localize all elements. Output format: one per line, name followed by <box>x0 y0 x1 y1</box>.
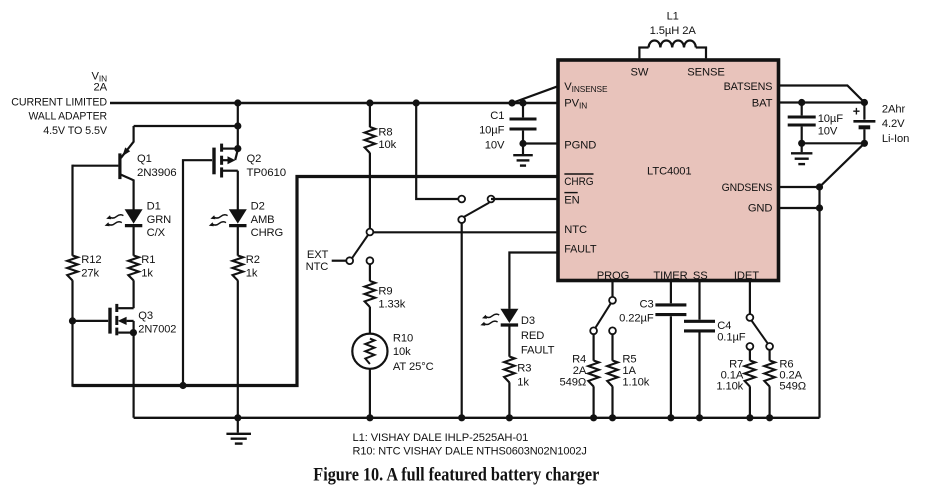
svg-text:GND: GND <box>748 203 773 215</box>
svg-text:FAULT: FAULT <box>564 243 596 255</box>
svg-text:1k: 1k <box>141 267 153 279</box>
svg-text:Figure 10. A full featured bat: Figure 10. A full featured battery charg… <box>313 465 599 486</box>
svg-text:D1: D1 <box>147 201 161 213</box>
svg-text:1.10k: 1.10k <box>622 376 649 388</box>
svg-text:1A: 1A <box>622 365 636 377</box>
svg-text:R5: R5 <box>622 353 636 365</box>
svg-text:2A: 2A <box>573 365 587 377</box>
svg-text:LTC4001: LTC4001 <box>647 165 692 177</box>
svg-text:PROG: PROG <box>597 270 630 282</box>
svg-text:NTC: NTC <box>564 224 587 236</box>
svg-text:BATSENS: BATSENS <box>724 81 773 93</box>
svg-text:R4: R4 <box>572 353 586 365</box>
svg-text:2Ahr: 2Ahr <box>882 103 906 115</box>
svg-text:10V: 10V <box>485 140 505 152</box>
svg-text:10µF: 10µF <box>479 124 505 136</box>
svg-text:2A: 2A <box>94 81 108 93</box>
svg-text:SS: SS <box>693 270 708 282</box>
svg-text:GNDSENS: GNDSENS <box>722 182 773 194</box>
svg-text:EXT: EXT <box>307 249 329 261</box>
svg-text:4.2V: 4.2V <box>882 118 905 130</box>
svg-text:TP0610: TP0610 <box>247 167 287 179</box>
svg-text:4.5V TO 5.5V: 4.5V TO 5.5V <box>43 125 107 137</box>
svg-text:R2: R2 <box>246 254 260 266</box>
svg-text:EN: EN <box>564 195 579 207</box>
svg-text:1k: 1k <box>246 267 258 279</box>
svg-text:AMB: AMB <box>251 214 275 226</box>
svg-text:1k: 1k <box>517 376 529 388</box>
svg-text:10k: 10k <box>393 346 411 358</box>
svg-text:WALL ADAPTER: WALL ADAPTER <box>29 111 108 123</box>
svg-text:R10: R10 <box>393 333 413 345</box>
svg-text:TIMER: TIMER <box>653 270 687 282</box>
svg-text:10k: 10k <box>378 139 396 151</box>
svg-text:10V: 10V <box>818 126 838 138</box>
svg-text:IDET: IDET <box>734 270 759 282</box>
svg-text:R8: R8 <box>378 127 392 139</box>
svg-text:C4: C4 <box>717 320 731 332</box>
svg-text:2N3906: 2N3906 <box>137 167 177 179</box>
svg-text:10µF: 10µF <box>818 113 844 125</box>
svg-text:R12: R12 <box>81 254 101 266</box>
svg-text:L1: VISHAY DALE IHLP-2525AH-01: L1: VISHAY DALE IHLP-2525AH-01 <box>353 432 529 444</box>
svg-text:+: + <box>853 105 860 119</box>
svg-text:2N7002: 2N7002 <box>138 323 176 335</box>
svg-text:R1: R1 <box>141 254 155 266</box>
svg-text:CHRG: CHRG <box>251 227 284 239</box>
svg-text:549Ω: 549Ω <box>560 376 587 388</box>
svg-text:Li-Ion: Li-Ion <box>882 133 909 145</box>
svg-text:C1: C1 <box>490 110 504 122</box>
svg-text:Q1: Q1 <box>137 153 152 165</box>
svg-text:C3: C3 <box>639 299 653 311</box>
svg-text:CHRG: CHRG <box>564 176 593 188</box>
svg-text:0.1µF: 0.1µF <box>717 332 746 344</box>
svg-text:C/X: C/X <box>147 227 166 239</box>
svg-text:FAULT: FAULT <box>521 344 555 356</box>
svg-text:27k: 27k <box>81 267 99 279</box>
svg-text:RED: RED <box>521 330 544 342</box>
svg-text:L1: L1 <box>667 11 679 23</box>
svg-text:D3: D3 <box>521 315 535 327</box>
svg-text:BAT: BAT <box>752 97 773 109</box>
svg-text:1.5µH 2A: 1.5µH 2A <box>650 25 697 37</box>
svg-text:Q3: Q3 <box>138 310 153 322</box>
svg-text:PGND: PGND <box>564 140 596 152</box>
svg-text:GRN: GRN <box>147 214 172 226</box>
svg-text:1.10k: 1.10k <box>716 380 743 392</box>
svg-text:R9: R9 <box>378 286 392 298</box>
svg-text:SENSE: SENSE <box>687 66 724 78</box>
svg-text:0.22µF: 0.22µF <box>619 313 654 325</box>
svg-text:SW: SW <box>630 66 648 78</box>
svg-text:Q2: Q2 <box>247 153 262 165</box>
svg-text:549Ω: 549Ω <box>779 380 806 392</box>
svg-text:1.33k: 1.33k <box>378 299 405 311</box>
svg-text:R3: R3 <box>517 363 531 375</box>
svg-text:AT 25°C: AT 25°C <box>393 361 434 373</box>
svg-text:D2: D2 <box>251 201 265 213</box>
svg-text:R10: NTC VISHAY DALE NTHS0603N: R10: NTC VISHAY DALE NTHS0603N02N1002J <box>353 445 587 457</box>
svg-text:CURRENT LIMITED: CURRENT LIMITED <box>11 97 107 109</box>
svg-text:NTC: NTC <box>306 261 329 273</box>
